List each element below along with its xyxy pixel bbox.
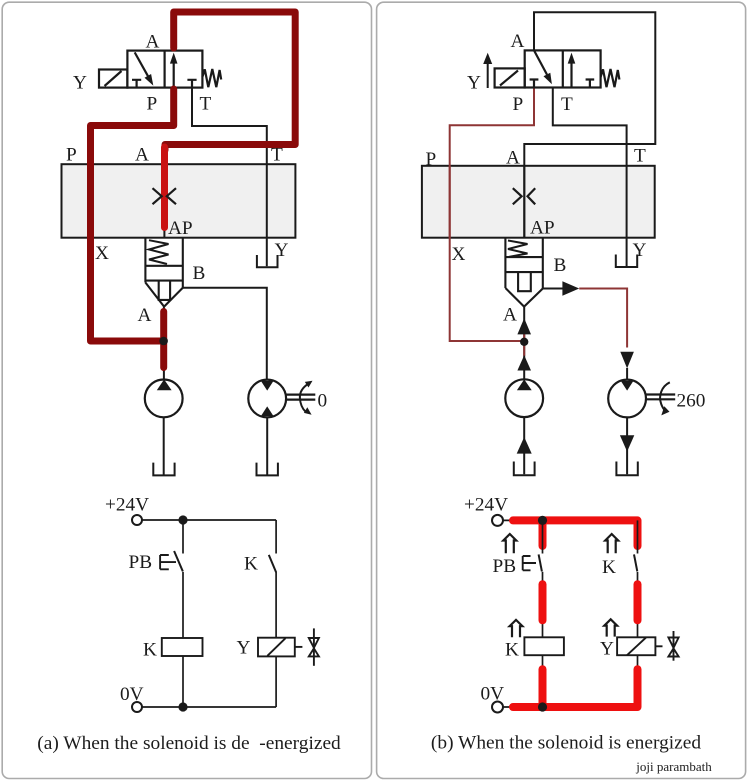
wire: motor drain line (266, 417, 268, 474)
junction: 0V rail tap (178, 702, 187, 711)
valve V1 blocked port right box (586, 80, 595, 88)
pushbutton PB contact blade (closed) (539, 554, 542, 571)
CV1 right wall (542, 238, 544, 288)
valve V1 solenoid diagonal (500, 71, 518, 86)
pump P1 (145, 380, 183, 418)
svg-text:+24V: +24V (464, 495, 508, 516)
flow arrow up above pump (517, 355, 531, 370)
wire: B line from CV1 (black) (543, 288, 563, 290)
wire: right branch middle (275, 572, 277, 638)
wire: right branch lower (275, 656, 277, 707)
wire: CV1 apex to pump column (black) (163, 307, 165, 380)
solenoid coil Y diagonal (627, 638, 646, 656)
wire: right branch energized middle (red) (634, 584, 642, 620)
motor M1 shaft (286, 395, 315, 400)
motor M1 (608, 380, 646, 418)
valve V1 flow arrow head (568, 53, 576, 64)
motor M1 rotation arrow bottom (661, 406, 669, 415)
CV1 funnel left (145, 283, 164, 307)
cartridge check valve CV1 (145, 238, 182, 306)
svg-text:X: X (95, 243, 109, 264)
valve V1 solenoid diagonal (105, 71, 122, 86)
CV1 left wall (144, 238, 146, 282)
solenoid pilot valve V1 (3/2, de-energized) (99, 51, 221, 88)
flow arrow down under motor (620, 435, 634, 451)
wire: motor outlet line (626, 417, 628, 474)
CV1 divider lower (505, 271, 542, 273)
CV1 divider lower (145, 280, 182, 282)
motor M1 lower triangle (261, 406, 274, 416)
wire: pump column (black) (523, 307, 525, 380)
junction: pilot tap on pump line (520, 338, 528, 346)
motor M1 shaft (646, 395, 675, 400)
pushbutton PB actuator (523, 556, 536, 570)
wire: +24V rail (142, 519, 276, 521)
valve V1 left box diagonal path (135, 52, 148, 76)
svg-text:A: A (146, 32, 160, 53)
actuation arrow above K contact (605, 534, 618, 553)
pushbutton PB contact blade (174, 551, 183, 571)
wire: left branch energized middle (red) (539, 584, 547, 620)
valve V1 return spring (202, 69, 221, 87)
svg-text:Y: Y (73, 73, 87, 94)
svg-text:T: T (634, 146, 646, 167)
wire: left branch upper (182, 520, 184, 554)
valve V1 blocked port right box (187, 80, 196, 88)
CV1 poppet seat notch (159, 281, 170, 300)
valve V1 diagonal arrow head (544, 73, 552, 85)
valve V1 solenoid box (495, 68, 525, 87)
relay coil K (162, 638, 203, 656)
valve V1 body (525, 50, 601, 87)
tank symbol under pump (153, 463, 174, 476)
actuation arrow above K coil (510, 620, 523, 637)
valve V1 diagonal arrow head (145, 74, 154, 86)
solenoid Y link dash (655, 645, 662, 647)
svg-text:Y: Y (275, 240, 289, 261)
wire: +24V rail energized (red) (513, 520, 638, 546)
svg-text:P: P (66, 145, 77, 166)
svg-text:joji parambath: joji parambath (635, 759, 712, 774)
valve V1 right box flow path (570, 63, 572, 88)
pump P1 (505, 379, 543, 417)
svg-text:K: K (143, 640, 157, 661)
wire: manifold T passage to drain Y (266, 164, 268, 266)
CV1 left wall (504, 238, 506, 288)
junction: 0V rail tap (538, 702, 547, 711)
valve V1 left box diagonal path (534, 50, 547, 74)
solenoid coil Y (617, 637, 655, 655)
valve V1 mid line (164, 51, 166, 88)
relay coil K (524, 637, 564, 655)
svg-text:K: K (602, 557, 616, 578)
wire: B line to motor (183, 288, 267, 380)
svg-text:Y: Y (633, 240, 647, 261)
svg-text:X: X (452, 244, 466, 265)
closed seat symbol on A passage (513, 188, 535, 204)
manifold block (422, 166, 655, 238)
terminal 0V (492, 702, 503, 713)
motor M1 upper triangle (621, 381, 634, 391)
wire: left branch middle (black) (542, 572, 544, 638)
wire: left branch energized lower (red) (539, 669, 547, 707)
valve V1 return spring (601, 69, 620, 87)
valve V1 solenoid box (99, 70, 127, 88)
actuation arrow above Y coil (604, 619, 617, 636)
solenoid Y link dash (295, 646, 303, 648)
drain tank symbol under Y port (616, 255, 637, 268)
motor M1 rotation arc (300, 384, 309, 412)
wire: pressure line valve-A top loop (thick maroon) (165, 12, 295, 150)
wire: pilot line valve-P to pump junction (thin dark red) (450, 88, 534, 342)
pushbutton PB actuator (160, 555, 176, 569)
svg-text:P: P (147, 94, 158, 115)
flow arrow down to motor (620, 352, 634, 369)
svg-text:A: A (138, 305, 152, 326)
svg-text:0: 0 (318, 391, 328, 412)
terminal +24V (492, 515, 503, 526)
wire: pump suction line (523, 417, 525, 474)
svg-text:Y: Y (600, 639, 614, 660)
wire: manifold A passage (black under red) (163, 150, 165, 238)
manifold block (62, 164, 296, 238)
CV1 spring (508, 241, 528, 257)
valve V1 body (127, 51, 202, 88)
CV1 divider upper (505, 256, 542, 258)
wire: pump column red segment at junction (523, 334, 525, 356)
motor M1 rotation arrow top (305, 381, 313, 388)
CV1 funnel right (524, 289, 543, 307)
svg-text:K: K (244, 554, 258, 575)
svg-text:A: A (135, 145, 149, 166)
valve V1 blocked port left box (132, 80, 141, 88)
wire: valve-T to manifold T (black) (553, 88, 627, 166)
svg-text:(a) When the solenoid is de -: (a) When the solenoid is de -energized (37, 733, 341, 754)
valve V1 actuation arrow (487, 62, 489, 88)
terminal +24V (132, 515, 142, 525)
wire: valve-A loop to manifold A (black) (524, 12, 655, 237)
valve V1 blocked port under P (530, 80, 539, 88)
wire: +24V rail (black) (503, 519, 638, 521)
wire: right branch upper (275, 520, 277, 554)
cartridge check valve CV1 (505, 238, 542, 306)
junction: +24V rail tap (178, 515, 187, 524)
CV1 funnel right (164, 288, 183, 307)
closed seat symbol on A passage (153, 188, 177, 204)
wire: left branch lower (black) (542, 655, 544, 707)
svg-text:AP: AP (530, 218, 555, 239)
svg-text:A: A (503, 305, 517, 326)
wire: manifold A-line pressurized (bright red) (161, 147, 168, 228)
svg-text:B: B (193, 263, 206, 284)
CV1 poppet seat notch (518, 272, 531, 291)
wire: B line to motor (thin dark red) (579, 289, 627, 348)
solenoid coil Y (258, 638, 295, 657)
pump P1 flow triangle (157, 379, 172, 390)
motor M1 (248, 380, 286, 418)
svg-text:B: B (554, 255, 567, 276)
valve V1 flow arrow head (170, 53, 178, 64)
solenoid pilot valve V1 (3/2, energized) (495, 50, 620, 87)
solenoid coil Y diagonal (267, 638, 285, 656)
CV1 spring (149, 240, 169, 264)
panel (a) border (2, 2, 371, 778)
actuation arrow above PB (503, 534, 516, 553)
valve actuation symbol right of Y coil (309, 628, 319, 665)
terminal 0V (132, 702, 142, 712)
svg-text:P: P (513, 94, 524, 115)
wire: manifold X passage (thin dark red continues) (449, 166, 451, 238)
wire: pump suction line (163, 417, 165, 474)
flow arrow up on suction (517, 437, 532, 454)
wire: left branch middle (182, 572, 184, 638)
wire: 0V rail (black) (503, 706, 638, 708)
wire: right branch lower (black) (637, 655, 639, 707)
wire: right branch upper (black) (637, 520, 639, 553)
flow arrow up below A apex (517, 318, 531, 334)
drain tank symbol under Y port (257, 255, 278, 267)
junction: pilot tap on pump line (159, 337, 168, 346)
panel (b) border (377, 2, 746, 778)
CV1 right wall (182, 238, 184, 287)
tank symbol under motor (257, 463, 278, 476)
svg-text:T: T (561, 94, 573, 115)
svg-text:(b) When the solenoid is energ: (b) When the solenoid is energized (431, 733, 701, 754)
motor M1 upper triangle (261, 381, 274, 391)
valve actuation symbol right of Y coil (668, 631, 678, 661)
svg-text:A: A (511, 31, 525, 52)
svg-text:Y: Y (467, 73, 481, 94)
svg-text:AP: AP (168, 218, 193, 239)
svg-text:+24V: +24V (105, 495, 149, 516)
wire: valve-T to manifold T (black) (192, 88, 267, 165)
wire: 0V rail (142, 706, 276, 708)
pump P1 flow triangle (517, 379, 532, 390)
svg-text:Y: Y (237, 638, 251, 659)
wire: right branch middle (black) (637, 572, 639, 637)
svg-text:PB: PB (129, 552, 153, 573)
tank symbol under pump (514, 462, 535, 476)
wire: left branch energized upper (red) (539, 520, 547, 546)
wire: manifold T passage to drain Y (626, 166, 628, 266)
svg-text:K: K (505, 640, 519, 661)
tank symbol under motor (616, 462, 637, 476)
svg-text:PB: PB (493, 556, 517, 577)
wire: pilot line valve-P to pump junction (thick maroon) (91, 89, 174, 341)
svg-text:0V: 0V (120, 684, 144, 705)
svg-text:260: 260 (677, 391, 706, 412)
wire: pump delivery column (thick maroon) (160, 312, 167, 368)
wire: 0V rail energized (red) (513, 669, 638, 707)
relay contact K blade (269, 555, 276, 572)
motor M1 rotation arrow bottom (304, 407, 312, 415)
motor M1 rotation arc (660, 382, 670, 411)
svg-text:A: A (506, 148, 520, 169)
valve V1 P-to-A flow path (173, 63, 175, 88)
junction: +24V rail tap (538, 516, 547, 525)
relay contact K blade (closed) (634, 554, 637, 571)
wire: left branch upper (black) (542, 520, 544, 553)
svg-text:P: P (426, 149, 437, 170)
wire: left branch lower (182, 656, 184, 707)
CV1 funnel left (505, 288, 524, 307)
CV1 divider upper (145, 265, 182, 267)
wire: arrow to motor top (black) (626, 368, 628, 380)
flow arrow on B line (562, 281, 579, 296)
valve V1 mid line (562, 50, 564, 87)
wire: manifold A passage (black) (523, 166, 525, 239)
svg-text:T: T (200, 94, 212, 115)
